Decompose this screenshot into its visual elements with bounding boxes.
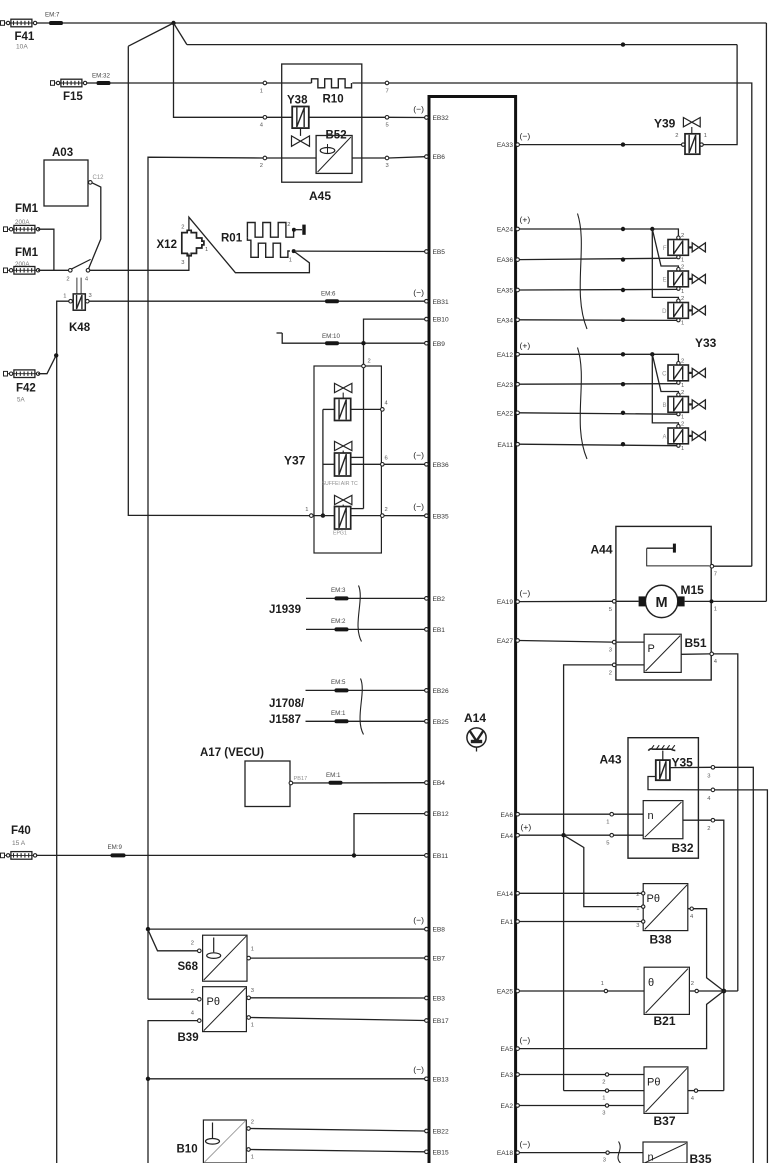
svg-text:2: 2	[251, 1120, 254, 1126]
wire EA18 to B35	[519, 1152, 643, 1154]
wire PB17 to EB4	[293, 782, 425, 784]
wire EA1 to B38 pin3	[519, 921, 641, 923]
wire R10 to pin7	[352, 82, 385, 84]
polarity label	[520, 588, 531, 598]
pin EA12	[497, 352, 520, 359]
wire B38 to pin4	[688, 908, 690, 910]
wire EA35 to E pin1	[519, 288, 676, 291]
wire EA12 common	[519, 354, 678, 361]
splice circle B37 pin1	[602, 1089, 608, 1102]
wire EA4 branch to B38	[564, 835, 644, 906]
wire Y35 loop to pin4	[648, 777, 711, 790]
wire EB10 to Y37 top	[364, 319, 425, 366]
wire vertical x173 to A45 pin4	[174, 23, 264, 117]
svg-text:EB17: EB17	[433, 1018, 449, 1025]
component A43 box	[600, 738, 699, 859]
svg-text:EA24: EA24	[497, 227, 513, 234]
wire Y37 pin2r to EB35	[384, 515, 425, 517]
svg-text:B51: B51	[685, 636, 707, 650]
wire EA34 to D pin1	[519, 319, 676, 322]
svg-text:EB4: EB4	[433, 780, 446, 787]
svg-text:(−): (−)	[413, 450, 424, 460]
wire Y37-3 upper right	[351, 508, 364, 510]
svg-text:5: 5	[606, 841, 609, 847]
sensor B35 (cut)	[643, 1142, 712, 1163]
Y37 pin 4	[381, 401, 389, 412]
svg-text:EA14: EA14	[497, 891, 513, 898]
wire Y37 pin1 to coil	[313, 515, 334, 517]
wire EA24 to E pin2	[652, 229, 678, 267]
svg-text:EA25: EA25	[497, 989, 513, 996]
svg-text:1: 1	[681, 321, 684, 327]
svg-text:B: B	[662, 403, 666, 409]
svg-text:1: 1	[305, 507, 308, 513]
svg-text:2: 2	[385, 507, 388, 513]
svg-text:A14: A14	[464, 711, 486, 725]
node dot EA36	[621, 257, 625, 261]
svg-text:FM1: FM1	[15, 203, 39, 215]
A44 pin 2	[609, 663, 616, 676]
wire EM:32 to A45 pin1	[111, 82, 264, 84]
svg-text:EM:9: EM:9	[108, 844, 123, 851]
node EB13 junction	[146, 1077, 150, 1081]
fuse FM1 upper	[4, 203, 40, 233]
svg-text:EA18: EA18	[497, 1150, 513, 1157]
svg-text:EB10: EB10	[433, 317, 449, 324]
wire pin1 to B32	[614, 813, 644, 815]
splice EM:2	[331, 618, 349, 631]
wire pin3 down right vertical	[715, 767, 754, 1163]
resistor R01	[221, 223, 296, 258]
svg-text:(−): (−)	[413, 104, 424, 114]
svg-text:2: 2	[681, 359, 684, 365]
svg-text:F41: F41	[15, 31, 35, 43]
wire A45 pin4 to Y38	[267, 116, 293, 118]
wire EB12 loop	[354, 814, 425, 856]
valve Y33-B	[662, 390, 705, 421]
svg-text:A43: A43	[600, 753, 622, 767]
svg-text:2: 2	[681, 390, 684, 396]
svg-text:A45: A45	[309, 189, 331, 203]
pin EA23	[497, 382, 520, 389]
svg-text:1: 1	[205, 247, 208, 253]
polarity label	[413, 1065, 424, 1075]
valve Y37-3 bowtie	[335, 495, 352, 506]
wire Y39 pin1 up	[703, 45, 737, 145]
svg-text:EB11: EB11	[433, 853, 449, 860]
solenoid Y38	[287, 95, 310, 147]
A44 pin 7	[710, 564, 717, 577]
svg-text:6: 6	[385, 456, 388, 462]
pin EB7	[425, 956, 446, 963]
wire Y38 to pin5	[309, 116, 385, 118]
svg-text:3: 3	[251, 988, 254, 994]
B39 pin 4	[191, 1011, 201, 1023]
wire B51 pin4 vertical	[714, 654, 738, 991]
component A17 (VECU)	[200, 747, 290, 807]
svg-text:2: 2	[66, 277, 69, 283]
pin EB1	[425, 627, 446, 634]
pin EB13	[425, 1076, 449, 1083]
svg-text:(+): (+)	[521, 822, 532, 832]
svg-text:2: 2	[191, 989, 194, 995]
svg-text:R10: R10	[323, 94, 344, 106]
splice EM:3	[331, 587, 349, 600]
svg-text:2: 2	[181, 225, 184, 231]
ECU A14 right edge (EA connector)	[514, 95, 517, 1163]
wire X12 pin3 from K48 pin4	[90, 254, 189, 271]
wire Y35 to pin3	[670, 766, 711, 768]
wire EA23 to C pin1	[519, 383, 676, 386]
label Y33	[695, 336, 717, 350]
svg-text:EB6: EB6	[433, 154, 446, 161]
B39 pin 2	[191, 989, 201, 1001]
svg-text:7: 7	[714, 572, 717, 578]
node dot EA12	[621, 352, 625, 356]
svg-text:X12: X12	[157, 239, 177, 251]
wire S68 to EB7	[251, 957, 425, 959]
relay K48 switch	[66, 259, 90, 334]
svg-text:EB25: EB25	[433, 719, 449, 726]
resistor R10	[312, 79, 352, 106]
svg-text:EA3: EA3	[501, 1072, 514, 1079]
svg-text:1: 1	[681, 258, 684, 264]
wire EA12 to B pin2	[652, 354, 678, 393]
wire J1708 hi to EB26	[306, 689, 425, 691]
fuse F15	[51, 79, 87, 103]
wire EA2 to B37 pin3	[519, 1105, 644, 1107]
A45 pin 5	[385, 116, 389, 129]
component A03	[44, 147, 88, 206]
sensor B21	[644, 967, 689, 1028]
svg-text:J1939: J1939	[269, 604, 301, 616]
svg-text:(−): (−)	[413, 288, 424, 298]
wire FM1 upper down	[38, 229, 54, 270]
wire FM1 lower to K48 pin2	[38, 269, 68, 271]
Y37 inner left vertical	[322, 409, 324, 515]
sensor B37	[644, 1067, 688, 1128]
wire Y37-1 to pin4	[351, 408, 381, 410]
wire EA22 to B pin1	[519, 413, 676, 414]
wire EA33 to Y39	[519, 144, 681, 146]
pin EA22	[497, 410, 520, 417]
component A44 box	[591, 526, 712, 680]
pin EA35	[497, 288, 520, 295]
polarity label	[520, 1139, 531, 1149]
svg-text:200A: 200A	[15, 219, 30, 226]
pin EB4	[425, 780, 446, 787]
wire pin5 to EB32	[389, 116, 425, 118]
B10 pin 2	[247, 1120, 254, 1131]
svg-text:3: 3	[386, 163, 389, 169]
svg-text:EA12: EA12	[497, 352, 513, 359]
A43 pin 4	[707, 788, 714, 802]
pin EB5	[425, 249, 446, 256]
svg-text:EPG1: EPG1	[333, 531, 347, 537]
node junction EA12 branch	[650, 352, 654, 356]
wire B37 to pin4	[688, 1090, 694, 1092]
fuse F40	[1, 825, 37, 859]
svg-text:A44: A44	[591, 543, 613, 557]
wire EM:7 to right edge	[63, 22, 766, 24]
svg-text:EA6: EA6	[501, 812, 514, 819]
node EB8 junction	[146, 927, 150, 931]
svg-text:EB15: EB15	[433, 1149, 449, 1156]
wire A45 pin1 to R10	[267, 82, 312, 84]
splice circle B37 pin2	[602, 1073, 608, 1086]
wire B39 pin3 to EB3	[251, 997, 425, 999]
svg-text:F40: F40	[11, 825, 31, 837]
wire EA25 to B21	[519, 990, 644, 992]
svg-text:(−): (−)	[520, 131, 531, 141]
wire A44 pin2 down x563	[564, 665, 613, 1091]
svg-text:EB7: EB7	[433, 956, 446, 963]
wire K48 pin1 to x56 vertical	[57, 301, 69, 1163]
B10 pin 1	[247, 1148, 254, 1161]
svg-text:1: 1	[251, 1155, 254, 1161]
pin EA27	[497, 638, 520, 645]
node dot EA33 wire	[621, 142, 625, 146]
svg-text:B35: B35	[690, 1152, 712, 1163]
svg-text:(−): (−)	[520, 588, 531, 598]
pin EA19	[497, 599, 520, 606]
svg-text:2: 2	[191, 941, 194, 947]
wire J1708 lo to EB25	[306, 720, 425, 722]
splice EM:32	[92, 73, 111, 86]
wire diagonal junction to x128	[128, 23, 173, 46]
wire vertical x128 to Y37	[128, 46, 309, 515]
svg-text:B37: B37	[654, 1114, 676, 1128]
svg-text:B10: B10	[177, 1144, 198, 1156]
svg-text:1: 1	[251, 947, 254, 953]
svg-text:1: 1	[289, 258, 292, 264]
valve Y37-2 coil	[335, 453, 351, 476]
svg-text:5A: 5A	[17, 397, 25, 404]
fuse F41	[1, 19, 37, 50]
svg-text:EB31: EB31	[433, 299, 449, 306]
terminator bar R01 pin2	[296, 225, 306, 235]
svg-text:(+): (+)	[520, 215, 531, 225]
svg-text:2: 2	[707, 826, 710, 832]
svg-text:EM:5: EM:5	[331, 679, 346, 686]
svg-text:1: 1	[606, 820, 609, 826]
wire K48 pin3 to EB31	[89, 300, 425, 302]
polarity label	[520, 215, 531, 225]
pin EB17	[425, 1018, 449, 1025]
pin EA4	[501, 833, 520, 840]
wire pin2 down x724	[715, 820, 724, 1090]
sensor B51	[644, 634, 707, 672]
wire EA19 to A44 pin5	[519, 600, 612, 602]
node R01 pin2	[287, 222, 296, 232]
pin EB9	[425, 341, 446, 348]
svg-text:EM:1: EM:1	[331, 710, 346, 717]
svg-text:3: 3	[636, 923, 639, 929]
svg-text:EM:6: EM:6	[321, 291, 336, 298]
svg-text:B38: B38	[650, 933, 672, 947]
svg-text:Y33: Y33	[695, 336, 717, 350]
component A45 box	[282, 64, 362, 203]
pin EB35	[425, 513, 449, 520]
wire Y37-2 to pin6	[351, 463, 381, 465]
svg-text:(−): (−)	[413, 502, 424, 512]
fuse F42	[4, 370, 40, 404]
splice circle B35	[603, 1151, 610, 1163]
B38 pin 2	[636, 892, 645, 898]
A45 pin 4	[260, 116, 267, 129]
valve Y33-D	[662, 296, 705, 327]
component Y37 box	[284, 366, 381, 553]
pin EA11	[497, 442, 519, 449]
wire J1939 hi to EB2	[306, 597, 425, 599]
node dot EA11	[621, 442, 625, 446]
svg-text:F15: F15	[63, 91, 83, 103]
A44 pin 5	[609, 600, 616, 614]
wire right edge vertical (to M15)	[765, 23, 767, 601]
polarity label	[520, 131, 531, 141]
svg-text:F42: F42	[16, 383, 36, 395]
wire pin2 to B51	[616, 664, 644, 666]
valve Y39	[654, 117, 707, 155]
svg-text:2: 2	[609, 671, 612, 677]
svg-text:5: 5	[386, 123, 389, 129]
svg-text:P: P	[648, 643, 655, 655]
pin EA2	[501, 1103, 520, 1110]
svg-text:EB3: EB3	[433, 996, 446, 1003]
svg-text:Pθ: Pθ	[207, 996, 220, 1008]
svg-text:10A: 10A	[16, 44, 28, 51]
svg-text:1: 1	[63, 294, 66, 300]
wire EA14 to B38 pin2	[519, 892, 641, 894]
svg-text:EA22: EA22	[497, 410, 513, 417]
pin EB6	[425, 154, 446, 161]
svg-text:1: 1	[602, 1096, 605, 1102]
label A14	[464, 711, 486, 725]
splice EM:1	[331, 710, 349, 723]
wire EA12 to A pin2	[652, 354, 678, 424]
svg-text:EA27: EA27	[497, 638, 513, 645]
pin EB3	[425, 996, 446, 1003]
node dot EA24	[621, 227, 625, 231]
svg-text:EA11: EA11	[497, 442, 513, 449]
wire Y37-3 to pin2r	[351, 515, 381, 517]
pin EB12	[425, 811, 449, 818]
ECU A14 top edge	[428, 95, 517, 98]
svg-text:1: 1	[601, 981, 604, 987]
wire pin3 to B51	[616, 641, 644, 643]
B38 pin 1	[636, 905, 645, 912]
A45 pin 2	[260, 156, 267, 169]
svg-text:2: 2	[636, 892, 639, 898]
wire x563 to B37 pin1	[564, 1090, 644, 1092]
svg-text:3: 3	[707, 774, 710, 780]
svg-text:(−): (−)	[413, 915, 424, 925]
wire x148 net from A45 pin2	[148, 157, 263, 999]
svg-text:M: M	[656, 595, 668, 611]
svg-text:EA35: EA35	[497, 288, 513, 295]
pin PB17	[289, 776, 307, 785]
wire pin5 to M15	[616, 600, 639, 602]
wire to S68 pin2	[148, 930, 198, 951]
svg-text:2: 2	[675, 133, 678, 139]
pin EB8	[425, 927, 446, 934]
polarity label	[521, 822, 532, 832]
svg-text:EB5: EB5	[433, 249, 446, 256]
svg-text:3: 3	[609, 648, 612, 654]
svg-text:A17 (VECU): A17 (VECU)	[200, 747, 264, 759]
wire EB9 with hook	[277, 333, 425, 343]
splice EM:1 (EB4)	[326, 772, 343, 785]
svg-text:n: n	[648, 1152, 654, 1163]
svg-text:2: 2	[681, 422, 684, 428]
pin EB36	[425, 462, 449, 469]
wire pin4 down right vertical	[715, 790, 768, 1163]
wire pin5 to B32	[614, 834, 644, 836]
svg-text:200A: 200A	[15, 261, 30, 268]
wire B32 to pin2	[683, 819, 711, 821]
pin EA34	[497, 317, 520, 324]
valve Y37-1 coil	[335, 398, 351, 420]
pin EA1	[501, 919, 520, 926]
wire B37 pin4 to vertical	[698, 1090, 724, 1092]
svg-text:B39: B39	[178, 1032, 199, 1044]
svg-text:EA19: EA19	[497, 599, 513, 606]
svg-text:3: 3	[181, 260, 184, 266]
A44 pin 3	[609, 640, 616, 653]
polarity label	[413, 288, 424, 298]
label J1708/J1587	[269, 698, 305, 726]
svg-text:FM1: FM1	[15, 247, 39, 259]
svg-text:EA1: EA1	[501, 919, 514, 926]
sensor B38	[643, 884, 688, 947]
A14 symbol	[467, 728, 486, 752]
svg-text:EM:7: EM:7	[45, 12, 60, 19]
svg-text:M15: M15	[681, 583, 705, 597]
node dot on 44-line	[621, 42, 625, 46]
pin EB25	[425, 719, 449, 726]
valve Y33-C	[662, 359, 705, 390]
polarity label	[413, 450, 424, 460]
svg-text:EB12: EB12	[433, 811, 449, 818]
pin EB10	[425, 317, 449, 324]
pin EB11	[425, 853, 449, 860]
node dot EA22	[621, 411, 625, 415]
svg-text:7: 7	[386, 89, 389, 95]
svg-text:3: 3	[602, 1111, 605, 1117]
svg-text:EB22: EB22	[433, 1129, 449, 1136]
polarity label	[520, 1035, 531, 1045]
fuse FM1 lower	[4, 247, 40, 274]
svg-text:2: 2	[681, 265, 684, 271]
svg-text:EB1: EB1	[433, 627, 446, 634]
polarity label	[413, 915, 424, 925]
pin EB31	[425, 299, 449, 306]
svg-text:EB36: EB36	[433, 462, 449, 469]
B38 pin 3	[636, 920, 645, 929]
node dot EA35	[621, 288, 625, 292]
node dot EA23	[621, 382, 625, 386]
label J1939	[269, 604, 301, 616]
ECU A14 left edge (EB connector)	[428, 95, 431, 1163]
wire B10 pin2 to EB22	[250, 1129, 424, 1132]
wire B39 pin1 to EB17	[251, 1018, 425, 1021]
Y37 pin 6	[381, 456, 388, 467]
wire M15 to pin1	[685, 600, 710, 602]
splice circle B21 pin1	[601, 981, 608, 993]
svg-text:PB17: PB17	[294, 776, 308, 782]
svg-text:5: 5	[609, 607, 612, 613]
svg-text:EA5: EA5	[501, 1046, 514, 1053]
